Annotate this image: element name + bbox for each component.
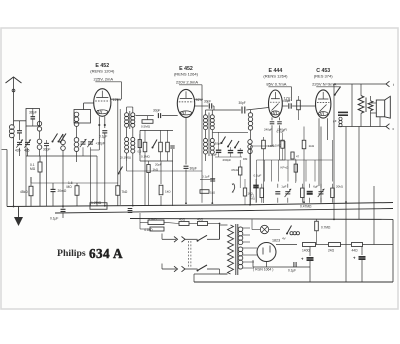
svg-text:0.1μF: 0.1μF (50, 217, 58, 221)
svg-text:0.1μF: 0.1μF (99, 135, 107, 139)
svg-text:( RGN 1064 ): ( RGN 1064 ) (253, 268, 273, 272)
svg-text:1.2MΩ: 1.2MΩ (91, 201, 102, 205)
svg-text:1kΩ: 1kΩ (309, 144, 315, 148)
svg-text:4.1kΩ: 4.1kΩ (144, 228, 153, 232)
svg-text:20kΩ: 20kΩ (336, 184, 344, 188)
svg-text:30pF: 30pF (239, 101, 246, 105)
svg-text:47kΩ: 47kΩ (231, 168, 239, 172)
svg-text:92V: 92V (196, 98, 203, 102)
svg-text:30pF: 30pF (204, 100, 211, 104)
svg-text:2μF: 2μF (285, 99, 291, 103)
svg-text:0.1MΩ: 0.1MΩ (141, 155, 151, 159)
svg-text:μF: μF (333, 119, 337, 123)
svg-text:40Ω: 40Ω (179, 218, 186, 222)
svg-text:MΩ: MΩ (251, 197, 255, 201)
svg-text:30pF: 30pF (153, 109, 160, 113)
svg-text:(RES 374): (RES 374) (314, 74, 334, 79)
svg-text:0.7MΩ: 0.7MΩ (321, 226, 331, 230)
svg-text:t: t (393, 83, 394, 87)
svg-text:30pF: 30pF (190, 167, 197, 171)
svg-text:120V: 120V (113, 98, 122, 102)
svg-text:30pF: 30pF (215, 142, 222, 146)
svg-text:4V: 4V (282, 237, 286, 241)
svg-text:260pF: 260pF (223, 158, 232, 162)
svg-text:6μF: 6μF (313, 184, 318, 188)
svg-text:MΩ: MΩ (30, 167, 36, 171)
svg-text:(RENS 1264): (RENS 1264) (174, 72, 199, 77)
svg-text:45kΩ: 45kΩ (20, 190, 28, 194)
svg-text:1823: 1823 (272, 239, 280, 243)
svg-text:7kΩ: 7kΩ (122, 190, 128, 194)
svg-text:1kΩ: 1kΩ (153, 168, 159, 172)
svg-text:0.1μF: 0.1μF (288, 269, 296, 273)
svg-text:40Ω: 40Ω (197, 218, 204, 222)
svg-text:240pF: 240pF (264, 128, 273, 132)
svg-text:220V 2.9mA: 220V 2.9mA (176, 80, 199, 85)
svg-text:(0.1MΩ): (0.1MΩ) (120, 156, 131, 160)
svg-text:44Ω: 44Ω (352, 249, 359, 253)
svg-text:0.5μF: 0.5μF (277, 130, 285, 134)
svg-text:1kΩ: 1kΩ (165, 190, 171, 194)
svg-text:1μF: 1μF (281, 184, 286, 188)
svg-text:3.2kΩ: 3.2kΩ (148, 218, 157, 222)
svg-text:+30pF: +30pF (96, 142, 105, 146)
svg-text:225V, 2mA: 225V, 2mA (93, 77, 113, 82)
svg-text:(RENS 1264): (RENS 1264) (263, 74, 288, 79)
svg-text:24Ω: 24Ω (328, 249, 335, 253)
svg-text:20mΩ: 20mΩ (58, 189, 67, 193)
svg-text:MΩ: MΩ (67, 185, 73, 189)
svg-text:0.1μF: 0.1μF (202, 175, 210, 179)
svg-text:0.47MΩ: 0.47MΩ (300, 205, 312, 209)
svg-text:0.5MΩ: 0.5MΩ (141, 125, 151, 129)
svg-text:Philips: Philips (57, 248, 86, 259)
svg-text:140Ω: 140Ω (302, 249, 310, 253)
svg-text:220V N=9mA: 220V N=9mA (312, 82, 336, 87)
svg-text:1kΩ: 1kΩ (210, 191, 215, 195)
svg-text:0.5μF: 0.5μF (254, 174, 262, 178)
svg-text:634 A: 634 A (89, 246, 123, 261)
svg-text:85V 0.7mA: 85V 0.7mA (266, 82, 286, 87)
svg-text:435: 435 (24, 149, 30, 153)
svg-text:47: 47 (296, 155, 300, 159)
svg-text:DM: DM (243, 157, 248, 161)
svg-text:(RENS 1204): (RENS 1204) (90, 69, 115, 74)
